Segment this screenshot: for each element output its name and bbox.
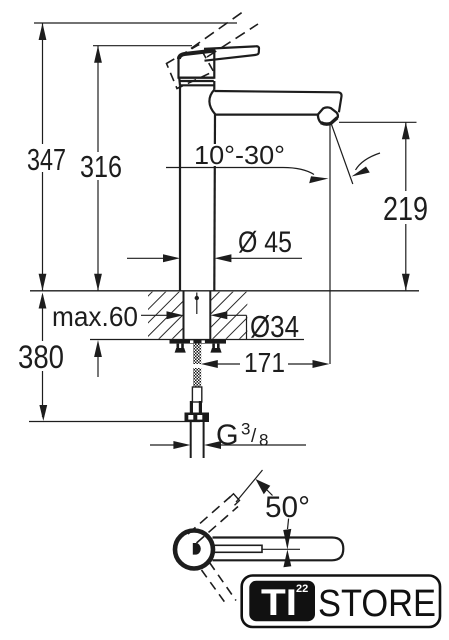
svg-text:max.60: max.60 [52,301,138,332]
label G3/8 [216,420,268,452]
lever top view [213,538,344,561]
column right edge upper [213,81,215,90]
extension line top (347 reference) [34,22,237,24]
bottom view: handle circle [175,531,213,569]
shank through deck [184,291,211,340]
threaded rod lower [193,368,201,387]
dashed lowered lever rays [202,563,237,607]
219 top extension line [339,121,417,123]
screw left [175,344,186,353]
TI STORE logo [242,576,440,628]
dimension 171 [201,360,330,368]
svg-text:STORE: STORE [318,583,436,625]
380 bottom reference line [29,421,200,423]
svg-text:Ø 45: Ø 45 [238,226,292,259]
jet angle line [332,125,353,185]
svg-text:219: 219 [383,190,428,227]
leader 10-30 [166,168,329,184]
dimension 380 line [39,293,48,422]
shank centerline + dot [196,293,198,315]
countertop hatch right [210,292,247,339]
dimension 316 line [94,46,102,291]
raised lever end cap [229,494,240,505]
spout outlet centerline [329,124,331,364]
extension line (316 reference) [93,45,192,47]
countertop hatch left [148,292,184,339]
dia34 right arrow + leader [210,311,246,339]
svg-text:380: 380 [18,339,64,375]
label 10-30 degrees background [192,144,287,166]
rod plain section [192,387,201,402]
svg-text:171: 171 [244,347,285,378]
faucet body outline [180,81,342,291]
deck bottom extension line [90,339,304,341]
svg-text:TI: TI [261,582,297,623]
svg-text:/: / [251,426,257,447]
50 deg bowtie marker [283,529,291,567]
svg-text:3: 3 [241,420,250,439]
svg-text:10°-30°: 10°-30° [194,140,285,170]
svg-text:316: 316 [80,149,122,184]
S-break squiggle [209,90,215,115]
hex nut [185,413,210,423]
body thick top edge [179,51,214,59]
supply pipe [191,422,204,458]
lever centerline [262,548,300,550]
column right edge lower [213,114,216,290]
raised lever extension line [236,470,263,502]
svg-text:8: 8 [259,431,268,450]
svg-text:Ø34: Ø34 [250,309,299,344]
50 deg leader arrow [256,479,271,494]
spout bottom edge [214,113,318,115]
circle inner D mark [193,543,201,555]
svg-text:22: 22 [296,583,308,595]
jet angle arc + arrow [352,153,381,177]
dimension max.60 arrow up [94,340,102,377]
dimension 219 line [402,122,410,290]
dashed rotated handle body [167,45,214,89]
leader max.60 / dia34 left arrow [141,311,184,319]
threaded rod upper [193,344,201,364]
dimension G3/8 [150,441,306,449]
svg-text:50°: 50° [265,491,310,524]
aerator [318,108,338,125]
dimension 347 line [39,23,47,291]
svg-text:G: G [216,420,239,452]
neck bands [179,76,215,78]
screw right [210,344,221,353]
dimension dia45 [127,254,302,262]
column left edge [179,85,181,290]
svg-text:347: 347 [27,142,66,177]
rod side bars [190,401,202,413]
mounting plate under deck [170,340,227,344]
spout top edge [215,91,342,112]
deck top extension line [30,290,419,292]
dashed raised lever lines [191,11,258,57]
lever (side view) [204,46,259,60]
dashed raised lever (top view) [188,497,238,544]
handle body [179,51,215,86]
